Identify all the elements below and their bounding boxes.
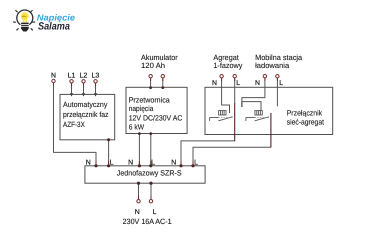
svg-text:napięcia: napięcia xyxy=(129,104,154,113)
svg-text:AZF-3X: AZF-3X xyxy=(63,120,85,129)
svg-text:Przełącznik: Przełącznik xyxy=(287,108,323,117)
svg-text:N: N xyxy=(171,159,176,166)
svg-text:Przetwornica: Przetwornica xyxy=(129,96,171,105)
svg-text:6 kW: 6 kW xyxy=(129,122,145,131)
svg-text:ładowania: ładowania xyxy=(255,61,290,70)
svg-text:L2: L2 xyxy=(80,73,88,80)
svg-text:N: N xyxy=(135,209,140,216)
svg-text:L: L xyxy=(151,159,155,166)
svg-text:N: N xyxy=(51,73,56,80)
svg-text:230V 16A AC-1: 230V 16A AC-1 xyxy=(123,217,172,226)
svg-text:L: L xyxy=(110,159,114,166)
svg-text:120 Ah: 120 Ah xyxy=(141,61,165,70)
svg-text:sieć-agregat: sieć-agregat xyxy=(287,117,325,126)
svg-text:N: N xyxy=(212,80,217,87)
svg-text:Automatyczny: Automatyczny xyxy=(63,100,108,109)
svg-text:Jednofazowy SZR-S: Jednofazowy SZR-S xyxy=(117,169,182,178)
svg-text:N: N xyxy=(255,80,260,87)
svg-text:L: L xyxy=(279,80,283,87)
svg-text:L: L xyxy=(236,80,240,87)
svg-text:N: N xyxy=(128,159,133,166)
svg-text:N: N xyxy=(86,159,91,166)
svg-text:L: L xyxy=(194,159,198,166)
svg-text:przełącznik faz: przełącznik faz xyxy=(63,110,109,119)
svg-text:L: L xyxy=(153,209,157,216)
svg-text:L3: L3 xyxy=(92,73,100,80)
svg-text:12V DC/230V AC: 12V DC/230V AC xyxy=(129,114,183,123)
svg-text:L1: L1 xyxy=(68,73,76,80)
svg-text:1-fazowy: 1-fazowy xyxy=(213,61,242,70)
svg-text:Salama: Salama xyxy=(38,21,70,33)
